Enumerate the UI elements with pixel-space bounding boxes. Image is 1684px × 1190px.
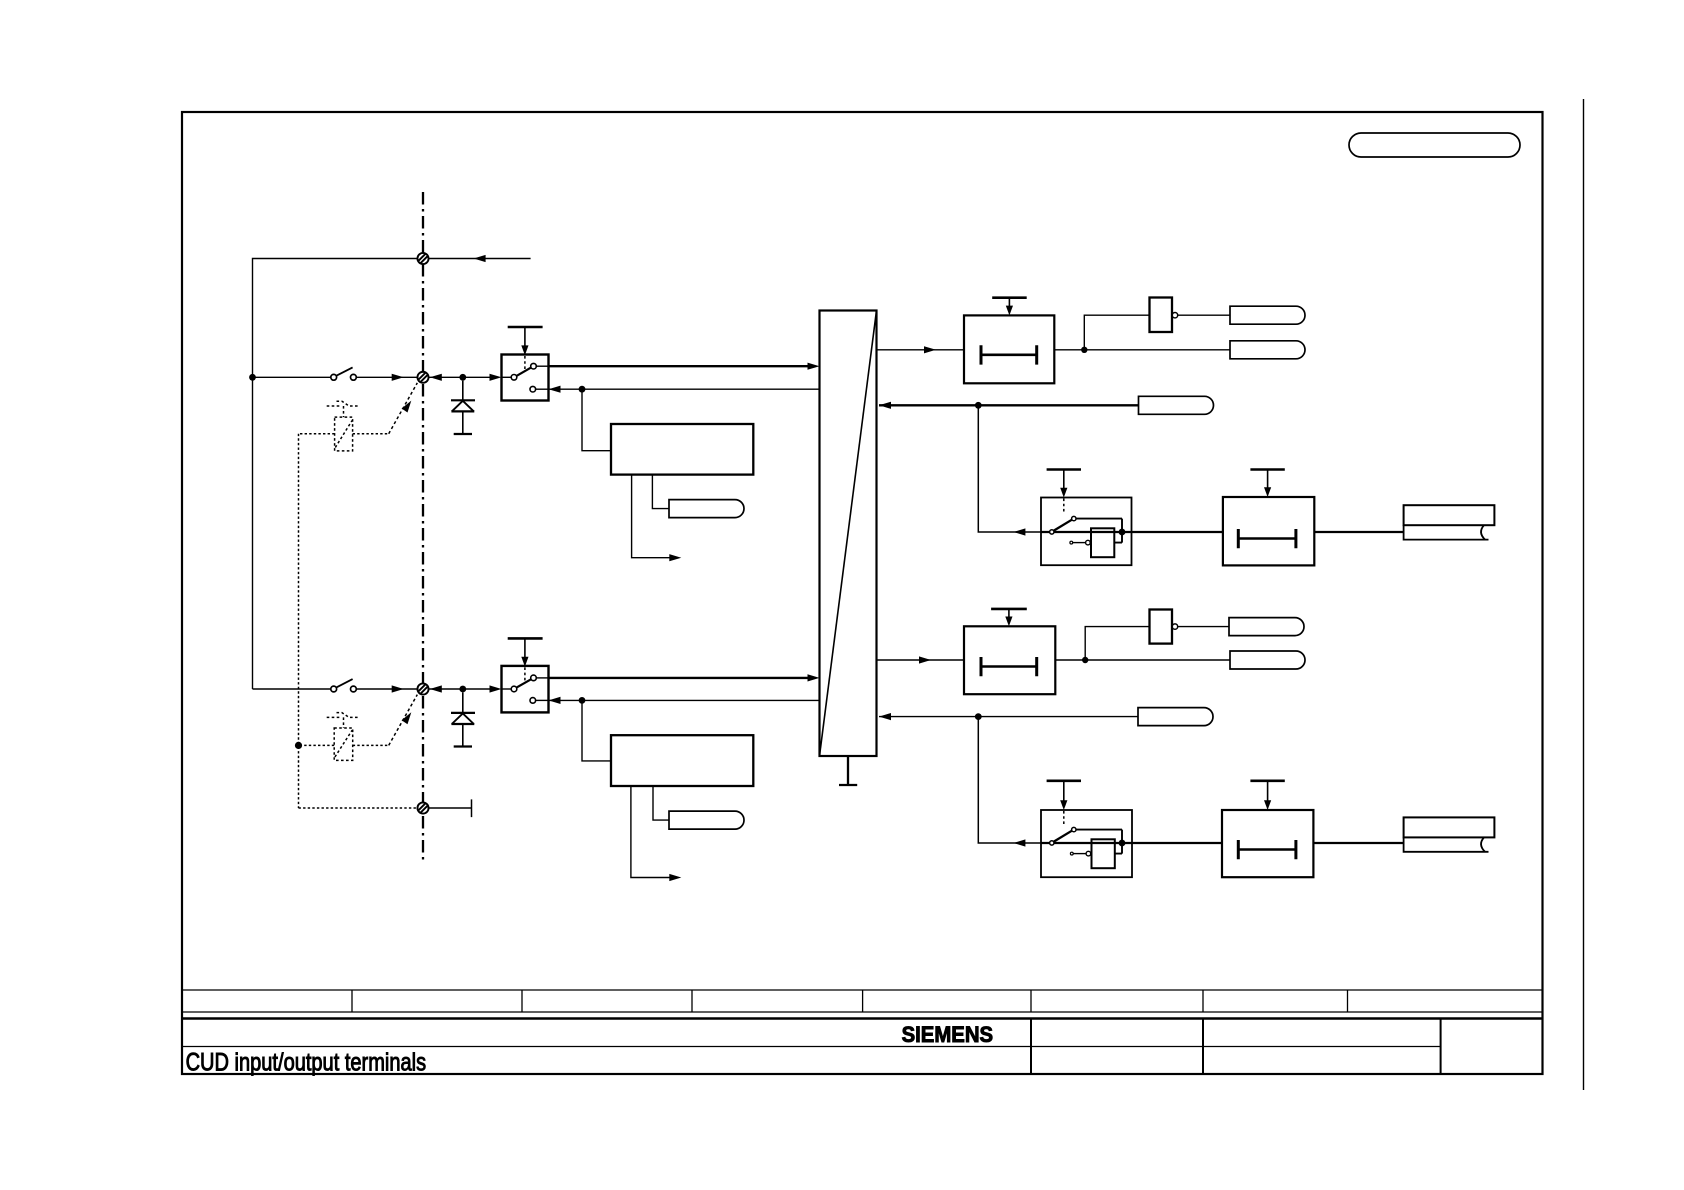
switch inside U2 bbox=[502, 675, 549, 703]
connector flag binector row3 inverted bbox=[1229, 618, 1304, 636]
wire A1 output with arrow bbox=[632, 475, 670, 558]
wire U5 throw to sub-inverter bbox=[1076, 519, 1122, 543]
wire branch to inverter N1 bbox=[1084, 315, 1149, 350]
filter box U6 (smoothing row2) bbox=[1223, 497, 1314, 565]
filter box U7 (smoothing row3) bbox=[964, 626, 1055, 694]
wire U4 output to flag row1 bbox=[1054, 349, 1230, 351]
relay K2 auxiliary contact (dashed) bbox=[327, 713, 360, 728]
filter symbol inside U4 bbox=[981, 345, 1037, 364]
arrow toward terminal X3 (pointing right) bbox=[392, 685, 404, 692]
inverter N1 bbox=[1150, 298, 1178, 333]
arrow on relay K2 link (up-right) bbox=[402, 712, 412, 724]
sheet reference symbol row4 (book) bbox=[1404, 817, 1495, 851]
switch S2 (open contact) bbox=[331, 679, 356, 692]
node junction protective diode V1 bbox=[459, 374, 466, 381]
wire main row4 through U8 to filter U9 bbox=[1041, 842, 1222, 844]
drawing frame border bbox=[182, 112, 1543, 1074]
arrow into terminal X1 (pointing left) bbox=[474, 255, 486, 262]
wire U2 to ADC (selected input, heavy) bbox=[549, 677, 809, 679]
node junction bus / analog input 1 bbox=[249, 374, 256, 381]
scaling box A1 (hardware setting row2) bbox=[611, 424, 753, 475]
connector flag binector row1 direct bbox=[1230, 341, 1305, 359]
arrow into ADC left (pointing right) bbox=[808, 674, 820, 681]
relay K2 coil (dashed box) bbox=[334, 728, 353, 760]
arrow out of terminal X3 (pointing left) bbox=[430, 685, 442, 692]
title block top row line bbox=[182, 989, 1543, 991]
wire U6 to output sheet symbol row2 bbox=[1314, 531, 1403, 533]
select box U2 (analog input 2 selector) bbox=[502, 666, 549, 713]
connector flag binector row3 direct bbox=[1230, 651, 1305, 669]
relay K1 auxiliary contact (dashed) bbox=[327, 401, 360, 417]
filter symbol inside U7 bbox=[981, 657, 1037, 676]
parameter T symbol above U7 bbox=[991, 609, 1027, 626]
sheet reference symbol row2 (book) bbox=[1404, 505, 1495, 539]
sheet label stadium top right bbox=[1349, 133, 1520, 157]
arrow toward corner row4 (pointing left) bbox=[1013, 839, 1025, 846]
connector flag binector row1 inverted bbox=[1230, 306, 1305, 324]
wire dashed selector actuator U1 bbox=[524, 356, 526, 370]
arrow into ADC left (pointing right) bbox=[808, 363, 820, 370]
wire analog input 2 to switch S2 bbox=[253, 688, 331, 690]
title block cell dividers top row bbox=[352, 990, 1348, 1012]
arrow into U1 lower contact (pointing left) bbox=[549, 386, 561, 393]
select box U8 (sign inverter select row4) bbox=[1041, 810, 1132, 877]
select box U1 (analog input 1 selector) bbox=[502, 355, 549, 401]
wire dotted relay bus vertical bbox=[299, 434, 418, 808]
node dotted junction relay K2 tap bbox=[295, 742, 302, 749]
wire dashed selector actuator U8 bbox=[1063, 811, 1065, 827]
wire stub right of terminal X1 bbox=[429, 258, 531, 260]
wire left supply bus bbox=[252, 377, 254, 689]
wire ADC to U2 return bbox=[549, 699, 820, 701]
terminal X3 analog input 2 (hatched) bbox=[417, 683, 428, 694]
arrow A1 output (pointing right) bbox=[669, 554, 681, 561]
A/D converter U3 bbox=[820, 311, 877, 757]
wire branch to inverter N2 bbox=[1085, 627, 1149, 660]
terminal X1 (hatched) bbox=[417, 253, 428, 264]
wire analog input 1 to switch S1 bbox=[253, 376, 331, 378]
arrow out of terminal X2 (pointing left) bbox=[430, 374, 442, 381]
wire switch S1 to terminal X2 bbox=[356, 376, 417, 378]
connector flag source row4 feedback bbox=[1138, 708, 1213, 726]
scaling box A2 (hardware setting row4) bbox=[611, 735, 753, 786]
arrow toward corner row2 (pointing left) bbox=[1013, 528, 1025, 535]
terminal X2 analog input 1 (hatched) bbox=[417, 372, 428, 383]
wire ADC to U1 return bbox=[549, 388, 820, 390]
wire feedback down to select box U8 bbox=[978, 717, 1041, 843]
ground symbol below U3 bbox=[839, 756, 857, 785]
node junction feedback row4 bbox=[975, 713, 982, 720]
wire feedback row4 to ADC bbox=[879, 716, 1138, 718]
filter symbol inside U9 bbox=[1238, 840, 1296, 859]
wire U7 output to flag row3 bbox=[1055, 659, 1230, 661]
arrow into select box U1 (pointing right) bbox=[490, 374, 502, 381]
wire junction to scaling box A2 bbox=[582, 700, 611, 761]
diode V1 (breakdown diode to reference bar) bbox=[451, 381, 475, 434]
title block cells bottom line bbox=[182, 1011, 1543, 1013]
wire A2 to connector flag bbox=[653, 786, 669, 820]
parameter T symbol above U9 bbox=[1250, 781, 1284, 810]
relay K1 coil (dashed box) bbox=[335, 417, 353, 451]
connector flag row2 scaling bbox=[669, 500, 744, 518]
wire U9 to output sheet symbol row4 bbox=[1313, 842, 1403, 844]
filter box U9 (smoothing row4) bbox=[1222, 810, 1313, 877]
fold mark vertical line right edge bbox=[1583, 99, 1585, 1090]
switch inside U5 bbox=[1050, 516, 1076, 534]
arrow into ADC right (pointing left) bbox=[879, 402, 891, 409]
sub inverter box inside U8 bbox=[1070, 839, 1114, 868]
wire ADC to filter U7 bbox=[877, 659, 965, 661]
wire junction to scaling box A1 bbox=[582, 389, 611, 451]
title block middle row line bbox=[182, 1046, 1441, 1048]
wire feedback row2 to ADC (heavy) bbox=[879, 404, 1139, 406]
switch S1 (open contact) bbox=[331, 367, 356, 380]
wire stub right of terminal X4 with end bar bbox=[429, 799, 472, 817]
select box U5 (sign inverter select row2) bbox=[1041, 498, 1132, 566]
wire U1 to ADC (selected input, heavy) bbox=[549, 365, 809, 367]
title block heavy separator line bbox=[182, 1017, 1543, 1019]
svg-text:SIEMENS: SIEMENS bbox=[902, 1022, 994, 1047]
switch inside U8 bbox=[1050, 827, 1076, 845]
parameter T symbol above U6 bbox=[1250, 470, 1284, 498]
connector flag source row2 feedback bbox=[1139, 396, 1214, 414]
connector flag row4 scaling bbox=[669, 811, 744, 829]
parameter T symbol above U1 bbox=[508, 327, 543, 355]
arrow A2 output (pointing right) bbox=[669, 874, 681, 881]
node junction U8 output tie bbox=[1119, 840, 1126, 847]
wire feedback down to select box U5 bbox=[978, 405, 1041, 532]
wire dashed relay K2 actuating link to terminal X3 bbox=[389, 695, 418, 746]
wire top reference line to terminal X1 bbox=[253, 259, 418, 378]
svg-text:CUD input/output terminals: CUD input/output terminals bbox=[186, 1049, 427, 1077]
wire terminal X2 to select box U1 bbox=[429, 376, 490, 378]
inverter N2 bbox=[1150, 610, 1178, 644]
wire main row2 through U5 to filter U6 (heavy) bbox=[1041, 531, 1223, 533]
wire dashed selector actuator U5 bbox=[1063, 499, 1065, 515]
wire U8 throw to sub-inverter bbox=[1076, 830, 1122, 854]
wire dotted relay K2 feed bbox=[299, 744, 389, 746]
wire dashed selector actuator U2 bbox=[524, 667, 526, 681]
filter box U4 (smoothing row1) bbox=[964, 315, 1054, 383]
title block lower vertical dividers bbox=[1031, 1019, 1441, 1075]
node junction protective diode V2 bbox=[459, 686, 466, 693]
node junction inverter branch row3 bbox=[1082, 657, 1088, 663]
cabinet boundary dash-dot line bbox=[422, 192, 424, 862]
terminal X4 relay common (hatched) bbox=[417, 802, 428, 813]
arrow into U2 lower contact (pointing left) bbox=[549, 697, 561, 704]
wire terminal X3 to select box U2 bbox=[429, 688, 490, 690]
diode V2 (breakdown diode to reference bar) bbox=[451, 692, 475, 746]
wire A2 output with arrow bbox=[631, 786, 670, 878]
parameter T symbol above U5 bbox=[1047, 470, 1081, 498]
wire dashed relay K1 actuating link to terminal X2 bbox=[389, 383, 418, 434]
wire dotted relay K1 feed bbox=[299, 433, 389, 435]
parameter T symbol above U2 bbox=[508, 638, 543, 666]
wire ADC to filter U4 bbox=[877, 349, 965, 351]
parameter T symbol above U4 bbox=[992, 298, 1026, 316]
wire switch S2 to terminal X3 bbox=[356, 688, 417, 690]
arrow on ADC output row3 (pointing right) bbox=[919, 656, 931, 663]
arrow toward terminal X2 (pointing right) bbox=[392, 374, 404, 381]
wire N1 output to flag bbox=[1178, 314, 1230, 316]
arrow on relay K1 link (up-right) bbox=[402, 401, 412, 413]
node junction feedback row2 bbox=[975, 402, 982, 409]
arrow into select box U2 (pointing right) bbox=[490, 685, 502, 692]
wire N2 output to flag bbox=[1178, 626, 1229, 628]
filter symbol inside U6 bbox=[1238, 529, 1296, 548]
node junction U5 output tie bbox=[1119, 529, 1126, 536]
arrow into ADC right (pointing left) bbox=[879, 713, 891, 720]
wire A1 to connector flag bbox=[652, 475, 669, 509]
arrow on ADC output row1 (pointing right) bbox=[924, 346, 936, 353]
parameter T symbol above U8 bbox=[1047, 781, 1081, 810]
switch inside U1 bbox=[502, 363, 549, 392]
node junction scaling branch row2 bbox=[579, 386, 586, 393]
sub inverter box inside U5 bbox=[1070, 528, 1114, 557]
node junction inverter branch row1 bbox=[1081, 347, 1087, 353]
node junction scaling branch row4 bbox=[579, 697, 586, 704]
